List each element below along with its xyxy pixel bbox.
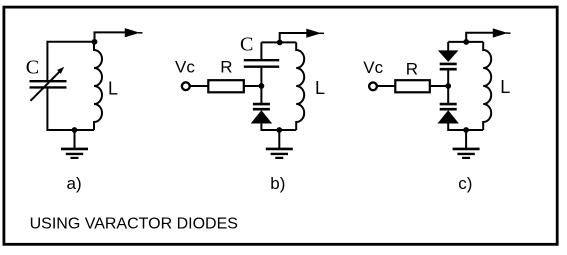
svg-text:a): a) — [67, 174, 82, 193]
D1 cathode bar 2 — [253, 108, 270, 111]
D3 cathode bar 1 — [440, 103, 457, 106]
node: junction dot bottom a — [72, 127, 78, 133]
wire: node down to D3 — [447, 86, 449, 103]
node: junction dot top c — [463, 39, 469, 45]
wire: left branch upper a — [46, 41, 48, 81]
svg-text:Vc: Vc — [363, 58, 383, 77]
terminal Vc (circuit c) — [369, 82, 377, 90]
svg-text:L: L — [500, 77, 510, 97]
wire: node up to C (b) — [260, 68, 262, 86]
wire: terminal to R (b) — [190, 85, 209, 87]
node: junction dot bottom c — [463, 127, 469, 133]
node: junction dot bottom b — [276, 127, 282, 133]
wire: bottom rail a — [47, 129, 94, 131]
D2 triangle (pointing down) — [438, 50, 459, 62]
resistor R (circuit c) — [395, 80, 430, 92]
D2 cathode bar 1 — [440, 63, 457, 66]
output arrow b — [280, 33, 308, 42]
svg-text:R: R — [220, 58, 232, 77]
capacitor C (variable) plates — [30, 81, 67, 87]
svg-text:Vc: Vc — [175, 57, 195, 76]
D1 triangle — [251, 110, 272, 123]
wire: C up to top rail (b) — [260, 42, 262, 59]
capacitor C (circuit b) plates — [244, 60, 279, 66]
inductor L (circuit b) — [296, 42, 304, 130]
svg-text:L: L — [315, 78, 325, 98]
node: junction dot top a — [92, 39, 98, 45]
wire: top rail down to D2 — [447, 42, 449, 51]
wire: top rail a — [47, 41, 94, 43]
svg-text:c): c) — [458, 174, 472, 193]
svg-text:L: L — [108, 78, 118, 98]
svg-text:b): b) — [270, 174, 285, 193]
wire: D3 to bottom rail — [447, 122, 449, 131]
wire: node down to D1 — [260, 86, 262, 103]
varactor diode D2 upper (circuit c) — [438, 42, 459, 86]
output arrow a — [95, 32, 127, 41]
resistor R (circuit b) — [208, 80, 244, 92]
svg-text:R: R — [406, 60, 418, 79]
wire: top rail b — [261, 41, 296, 43]
wire: left branch lower a — [46, 87, 48, 131]
svg-text:C: C — [26, 57, 39, 79]
wire: R to node (c) — [431, 85, 449, 87]
wire: terminal to R (c) — [377, 85, 395, 87]
inductor L (circuit a) — [94, 42, 102, 130]
D3 triangle — [438, 110, 459, 123]
wire: R to node (b) — [245, 85, 262, 87]
node: junction dot top b — [277, 40, 283, 46]
varactor diode D1 (circuit b) — [251, 86, 272, 131]
node: junction dot mid c — [445, 83, 451, 89]
wire: bottom rail b — [261, 129, 296, 131]
varactor diode D3 lower (circuit c) — [438, 86, 459, 131]
ground (circuit b) — [266, 130, 293, 158]
ground (circuit a) — [61, 130, 88, 158]
output arrow c — [466, 33, 494, 42]
ground (circuit c) — [453, 130, 480, 158]
node: junction dot mid b — [259, 83, 265, 89]
D1 cathode bar 1 — [253, 103, 270, 106]
D3 cathode bar 2 — [440, 108, 457, 111]
wire: D2 to node — [447, 70, 449, 86]
inductor L (circuit c) — [483, 42, 491, 130]
terminal Vc (circuit b) — [182, 82, 190, 90]
svg-text:USING VARACTOR DIODES: USING VARACTOR DIODES — [30, 216, 238, 233]
wire: D1 to bottom rail — [260, 123, 262, 132]
svg-text:C: C — [240, 34, 253, 56]
D2 cathode bar 2 — [440, 68, 457, 71]
wire: bottom rail c — [448, 129, 483, 131]
wire: top rail c — [448, 41, 483, 43]
capacitor C variable-arrow — [31, 71, 61, 101]
